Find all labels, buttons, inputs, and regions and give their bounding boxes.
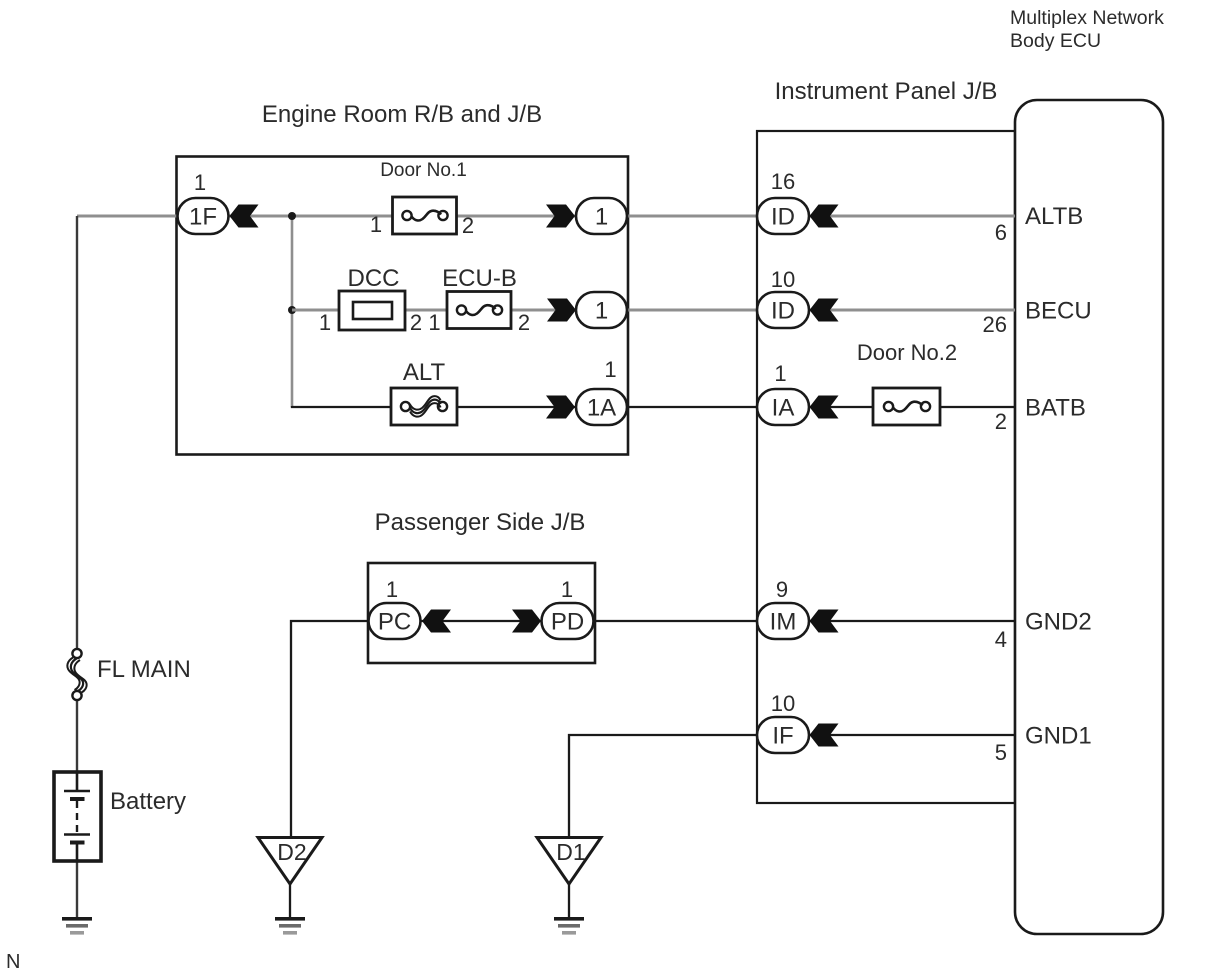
svg-text:1: 1 bbox=[319, 310, 331, 335]
svg-text:IA: IA bbox=[772, 395, 795, 422]
wire: IM to ECU pin 4 bbox=[809, 620, 1015, 622]
svg-text:ECU-B: ECU-B bbox=[442, 265, 517, 292]
ground at battery bbox=[62, 917, 92, 935]
wire: row2 ECU-B to connector 1 bbox=[511, 309, 576, 312]
arrow into connector 1 row2 bbox=[547, 299, 576, 322]
arrow at ID row1 bbox=[810, 205, 839, 228]
connector IM bbox=[757, 603, 809, 639]
wire: row3 ALT to connector 1A bbox=[457, 406, 576, 408]
svg-text:1: 1 bbox=[370, 212, 382, 237]
svg-text:ID: ID bbox=[771, 204, 795, 231]
svg-text:1: 1 bbox=[774, 361, 786, 386]
svg-text:Instrument Panel J/B: Instrument Panel J/B bbox=[775, 78, 998, 105]
svg-text:2: 2 bbox=[518, 310, 530, 335]
wire: row3 IA to Door No.2 fuse bbox=[809, 406, 873, 408]
fuse Door No.2 bbox=[873, 388, 940, 425]
svg-text:Multiplex Network: Multiplex Network bbox=[1010, 7, 1164, 29]
connector ID row1 bbox=[757, 198, 809, 234]
svg-text:DCC: DCC bbox=[348, 265, 400, 292]
svg-text:PD: PD bbox=[551, 609, 584, 636]
svg-text:5: 5 bbox=[995, 740, 1007, 765]
IC: Multiplex Network Body ECU outline bbox=[1015, 100, 1163, 934]
svg-text:BECU: BECU bbox=[1025, 298, 1092, 325]
wire: D2 stem bbox=[289, 884, 291, 917]
connector IA bbox=[757, 389, 809, 425]
arrow at ID row2 bbox=[810, 299, 839, 322]
svg-text:Passenger Side J/B: Passenger Side J/B bbox=[375, 509, 586, 536]
svg-text:1: 1 bbox=[386, 577, 398, 602]
wire: row2 DCC to ECU-B bbox=[405, 309, 447, 312]
node: junction row1 bbox=[288, 212, 296, 220]
svg-text:ALT: ALT bbox=[403, 359, 446, 386]
wire: row3 1A to IA bbox=[626, 406, 757, 408]
fuse Door No.1 bbox=[393, 197, 457, 234]
box: Passenger Side J/B bbox=[368, 563, 595, 663]
fuse ECU-B bbox=[447, 292, 511, 329]
svg-text:Body ECU: Body ECU bbox=[1010, 30, 1101, 52]
arrow at IA bbox=[810, 396, 839, 419]
wire: row2 connector 1 to ID bbox=[627, 309, 757, 312]
wire: PC to D2 ground branch bbox=[291, 621, 368, 836]
svg-text:4: 4 bbox=[995, 627, 1007, 652]
svg-text:2: 2 bbox=[995, 409, 1007, 434]
svg-text:Battery: Battery bbox=[110, 788, 186, 815]
svg-text:PC: PC bbox=[378, 609, 411, 636]
svg-text:FL MAIN: FL MAIN bbox=[97, 656, 191, 683]
ground at D2 bbox=[275, 917, 305, 935]
svg-text:1: 1 bbox=[428, 310, 440, 335]
svg-text:D2: D2 bbox=[277, 839, 306, 865]
wire: row3 branch to ALT bbox=[292, 406, 391, 407]
svg-text:6: 6 bbox=[995, 220, 1007, 245]
label: Multiplex Network Body ECU bbox=[1010, 7, 1164, 52]
ground at D1 bbox=[554, 917, 584, 935]
svg-text:9: 9 bbox=[776, 577, 788, 602]
node: junction row2 bbox=[288, 306, 296, 314]
svg-text:ID: ID bbox=[771, 298, 795, 325]
arrow at PC bbox=[422, 610, 451, 633]
fusible link FL MAIN bbox=[67, 649, 86, 700]
wire: row1 ID to ECU pin 6 bbox=[809, 215, 1015, 218]
box: Instrument Panel J/B bbox=[757, 131, 1015, 803]
arrow into connector 1A bbox=[546, 396, 575, 419]
fusible link ALT bbox=[391, 388, 457, 425]
wire: battery rail vertical bbox=[76, 216, 78, 649]
wire: row2 junction to DCC bbox=[292, 309, 339, 312]
wire: PD to IM bbox=[592, 620, 757, 622]
svg-text:26: 26 bbox=[983, 312, 1007, 337]
wire: row1 1F to Door No.1 fuse bbox=[229, 215, 393, 218]
svg-text:Door No.2: Door No.2 bbox=[857, 340, 957, 365]
battery bbox=[54, 772, 101, 861]
svg-text:2: 2 bbox=[462, 213, 474, 238]
svg-text:1: 1 bbox=[194, 170, 206, 195]
wire: IF to ECU pin 5 bbox=[809, 734, 1015, 736]
svg-text:10: 10 bbox=[771, 691, 795, 716]
svg-text:1: 1 bbox=[595, 298, 608, 325]
arrow at IF bbox=[810, 724, 839, 747]
connector 1 row2 bbox=[576, 292, 627, 328]
arrow at IM bbox=[810, 610, 839, 633]
arrow at 1F bbox=[230, 205, 259, 228]
svg-text:16: 16 bbox=[771, 169, 795, 194]
svg-text:1: 1 bbox=[561, 577, 573, 602]
ground connector D1 bbox=[537, 838, 601, 885]
svg-text:BATB: BATB bbox=[1025, 395, 1086, 422]
wire: D1 branch to IF bbox=[569, 735, 757, 836]
wire: row2 ID to ECU pin 26 bbox=[809, 309, 1015, 312]
svg-text:GND2: GND2 bbox=[1025, 609, 1092, 636]
connector IF bbox=[757, 717, 809, 753]
box: Engine Room R/B and J/B bbox=[177, 157, 629, 455]
svg-text:2: 2 bbox=[410, 310, 422, 335]
connector 1 row1 bbox=[576, 198, 627, 234]
svg-text:Engine Room R/B and J/B: Engine Room R/B and J/B bbox=[262, 101, 542, 128]
wire: PC to PD bbox=[421, 620, 542, 622]
wire: D1 stem bbox=[568, 884, 570, 917]
svg-text:GND1: GND1 bbox=[1025, 723, 1092, 750]
wire: battery rail horizontal to 1F bbox=[77, 215, 177, 218]
wire: row3 Door No.2 fuse to ECU pin 2 bbox=[940, 406, 1015, 408]
svg-text:Door No.1: Door No.1 bbox=[380, 160, 467, 181]
svg-text:IM: IM bbox=[770, 609, 797, 636]
connector 1F bbox=[178, 198, 229, 234]
connector PD bbox=[542, 603, 594, 639]
wire: row1 fuse to connector 1 bbox=[457, 215, 577, 218]
wire: battery to ground bbox=[76, 843, 78, 918]
wire: row1 connector 1 to ID bbox=[627, 215, 757, 218]
svg-text:1A: 1A bbox=[587, 395, 616, 422]
arrow into connector 1 row1 bbox=[546, 205, 575, 228]
relay DCC bbox=[339, 291, 405, 330]
wire: branch vertical gray bbox=[291, 216, 294, 407]
arrow into PD bbox=[512, 610, 541, 633]
ground connector D2 bbox=[258, 838, 322, 885]
svg-text:N: N bbox=[6, 951, 20, 973]
svg-text:10: 10 bbox=[771, 267, 795, 292]
connector 1A bbox=[576, 389, 627, 425]
svg-text:ALTB: ALTB bbox=[1025, 203, 1083, 230]
svg-text:D1: D1 bbox=[556, 839, 585, 865]
svg-text:1F: 1F bbox=[189, 204, 217, 231]
wire: FL MAIN to battery bbox=[76, 700, 78, 790]
svg-text:1: 1 bbox=[595, 204, 608, 231]
svg-text:1: 1 bbox=[604, 357, 616, 382]
svg-text:IF: IF bbox=[772, 723, 793, 750]
connector PC bbox=[369, 603, 421, 639]
connector ID row2 bbox=[757, 292, 809, 328]
